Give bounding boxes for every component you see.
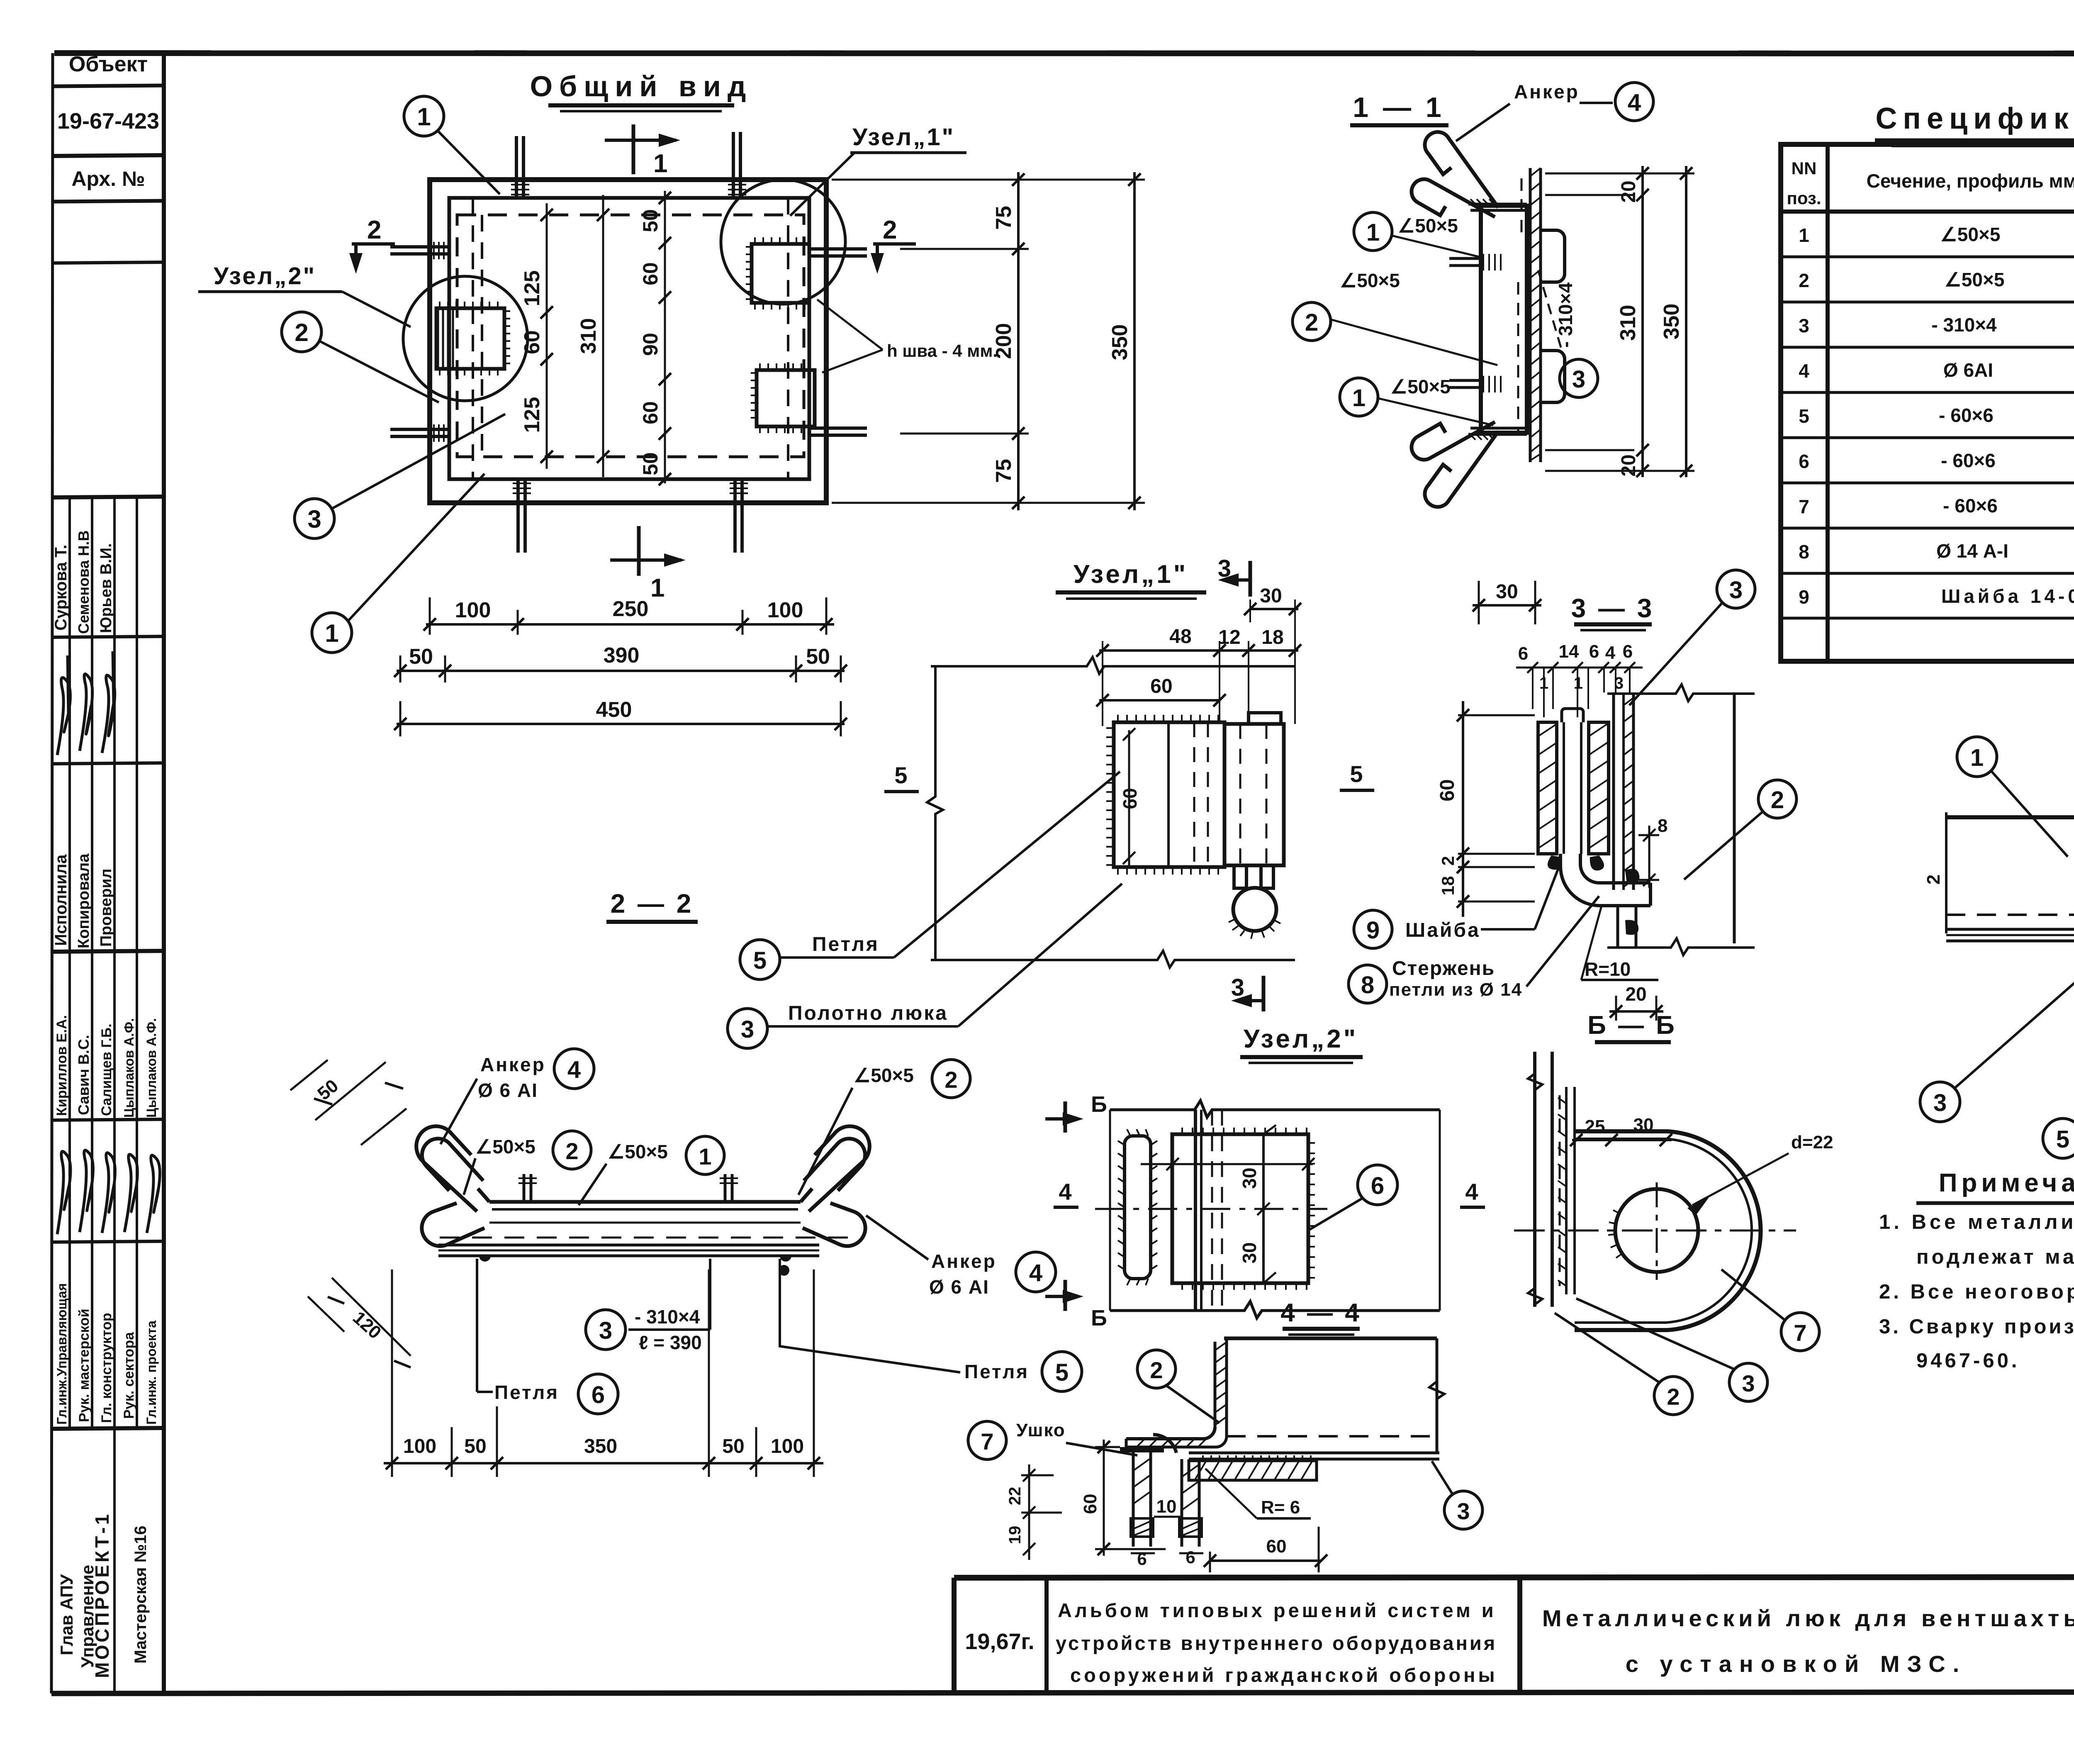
- svg-text:R=10: R=10: [1585, 958, 1631, 980]
- section mark 3 top: [1218, 555, 1251, 597]
- svg-text:3: 3: [307, 505, 321, 533]
- svg-text:75: 75: [992, 459, 1016, 483]
- weld ticks around left plate: [440, 302, 510, 375]
- svg-text:100: 100: [455, 598, 491, 622]
- svg-text:60: 60: [1080, 1494, 1100, 1514]
- svg-text:3: 3: [1729, 577, 1743, 604]
- svg-text:1. Все металлические детали по: 1. Все металлические детали после устано…: [1879, 1211, 2074, 1233]
- section mark 2 left: [349, 216, 395, 274]
- dim 30 left: [1473, 604, 1541, 607]
- svg-text:∠50×5: ∠50×5: [475, 1136, 536, 1157]
- svg-text:30: 30: [1239, 1167, 1260, 1189]
- hole: [1615, 1189, 1698, 1272]
- svg-text:125: 125: [520, 270, 544, 307]
- svg-text:Объект: Объект: [69, 52, 148, 76]
- right boundary: [1607, 685, 1755, 701]
- svg-text:6: 6: [1185, 1547, 1195, 1567]
- svg-text:Шайба 14-0Н: Шайба 14-0Н: [1941, 585, 2074, 607]
- svg-text:подлежат масляной покраске за: подлежат масляной покраске за 2 раза.: [1916, 1246, 2074, 1268]
- right dim 350: [1108, 172, 1141, 510]
- plates (hatched bars): [1538, 722, 1609, 854]
- callout 3 -310x4 l=390: [586, 1310, 626, 1350]
- svg-text:19-67-423: 19-67-423: [57, 109, 159, 134]
- left dims 60/2/18: [1436, 701, 1535, 917]
- bottom dim row 100/250/100: [424, 597, 834, 635]
- svg-text:4: 4: [1799, 360, 1809, 382]
- svg-text:7: 7: [1799, 496, 1809, 517]
- svg-text:100: 100: [767, 598, 803, 622]
- dim 48/12/18: [1099, 649, 1298, 652]
- svg-text:Б: Б: [1091, 1092, 1107, 1117]
- svg-text:5: 5: [753, 947, 767, 974]
- hatched slot (петля hole): [1125, 1136, 1151, 1279]
- hinge lugs on plate: [1541, 230, 1565, 282]
- svg-text:2: 2: [883, 216, 897, 244]
- svg-text:2. Все неоговоренные сварные ш: 2. Все неоговоренные сварные швы hшв.= 5…: [1879, 1281, 2074, 1303]
- callout 1 (bottom) with label: [1340, 378, 1378, 416]
- svg-text:25: 25: [1585, 1116, 1605, 1137]
- anchor hook bottom (pair): [1412, 422, 1498, 507]
- svg-text:5: 5: [2056, 1126, 2069, 1153]
- bent rod (стержень): [1560, 854, 1650, 906]
- svg-text:Рук. сектора: Рук. сектора: [121, 1332, 137, 1419]
- svg-text:2: 2: [944, 1067, 957, 1093]
- wall verticals: [1533, 1052, 1536, 1307]
- detail circle узел 1: [721, 180, 845, 304]
- svg-text:125: 125: [520, 397, 544, 433]
- svg-text:- 60×6: - 60×6: [1941, 450, 1996, 471]
- svg-text:450: 450: [596, 698, 632, 722]
- anchor pins bottom: [518, 479, 742, 553]
- inner dim chain 50/60/90/60/50: [639, 191, 671, 485]
- callout 1 (top) with label: [1354, 212, 1392, 251]
- svg-text:3: 3: [1799, 315, 1809, 336]
- left stamp column: [52, 52, 164, 1693]
- signatures (cursive squiggles): [57, 651, 160, 1234]
- svg-text:- 310×4: - 310×4: [1931, 314, 1997, 336]
- bolt plate: [1224, 724, 1284, 865]
- svg-text:∠50×5: ∠50×5: [608, 1141, 668, 1162]
- svg-text:Петля: Петля: [494, 1381, 559, 1403]
- 60x6 bar hatched: [1189, 1455, 1317, 1480]
- svg-text:∠50×5: ∠50×5: [854, 1065, 914, 1086]
- svg-text:2: 2: [1305, 309, 1318, 336]
- dims left: 60 / 22 / 19: [1006, 1440, 1166, 1560]
- callout 2 with label: [1293, 302, 1331, 341]
- svg-text:Рук. мастерской: Рук. мастерской: [76, 1309, 92, 1423]
- svg-text:Спецификация металла: Спецификация металла: [1875, 102, 2074, 135]
- svg-text:60: 60: [639, 262, 662, 285]
- svg-text:Анкер: Анкер: [480, 1054, 546, 1075]
- svg-text:30: 30: [1260, 585, 1282, 607]
- svg-text:Общий вид: Общий вид: [530, 70, 753, 102]
- svg-text:NN: NN: [1792, 158, 1817, 178]
- dim 8 right of plates: [1648, 826, 1650, 888]
- bottom dim chain 100/50/350/50/100: [384, 1269, 823, 1477]
- svg-text:Суркова Т.: Суркова Т.: [52, 545, 70, 631]
- svg-text:5: 5: [1350, 761, 1363, 787]
- svg-text:30: 30: [1239, 1242, 1260, 1263]
- svg-text:60: 60: [639, 401, 662, 424]
- svg-text:Кириллов Е.А.: Кириллов Е.А.: [54, 1015, 70, 1116]
- title block: [954, 1577, 2074, 1718]
- svg-text:Петля: Петля: [812, 933, 879, 955]
- svg-text:3. Сварку производить электрод: 3. Сварку производить электродами Э-42 п…: [1879, 1316, 2074, 1338]
- svg-text:9: 9: [1366, 917, 1380, 944]
- dashed angle lines: [472, 198, 474, 479]
- svg-text:60: 60: [1266, 1536, 1287, 1557]
- centerline dashed: [1095, 1208, 1327, 1210]
- lid body: [1946, 815, 2074, 819]
- plate strip with hatch: [1565, 1087, 1568, 1294]
- centerlines: [1514, 1230, 1796, 1232]
- svg-text:Узел„1": Узел„1": [852, 124, 955, 151]
- 310x4 plates sandwich lines extending right: [1946, 928, 2074, 931]
- left pins with weld ticks: [1449, 258, 1481, 387]
- svg-text:МОСПРОЕКТ-1: МОСПРОЕКТ-1: [91, 1512, 113, 1678]
- svg-text:3 — 3: 3 — 3: [1571, 593, 1655, 623]
- svg-text:20: 20: [1618, 180, 1640, 202]
- svg-text:75: 75: [992, 206, 1016, 230]
- label h шва-4мм: [817, 300, 998, 373]
- svg-text:- 310×4: - 310×4: [635, 1306, 700, 1328]
- svg-text:390: 390: [604, 643, 640, 668]
- svg-text:∠50×5: ∠50×5: [1390, 376, 1451, 397]
- svg-text:Глав АПУ: Глав АПУ: [57, 1574, 76, 1655]
- svg-text:2: 2: [1150, 1357, 1163, 1383]
- svg-text:Ø 14 А-I: Ø 14 А-I: [1936, 540, 2008, 562]
- weld dots: [479, 1256, 491, 1262]
- notes: [1879, 1169, 2074, 1372]
- body rect: [1224, 1337, 1437, 1340]
- callout 2 left: [282, 312, 439, 402]
- 310x4 plate to right: [1189, 1452, 1439, 1455]
- dims top 25/30: [1572, 1139, 1672, 1141]
- svg-text:- 60×6: - 60×6: [1939, 404, 1994, 426]
- svg-text:1: 1: [325, 619, 338, 647]
- svg-text:Примечания:: Примечания:: [1939, 1169, 2074, 1197]
- svg-text:Анкер: Анкер: [1514, 81, 1580, 102]
- svg-text:30: 30: [1633, 1115, 1654, 1135]
- left boundary with break: [927, 666, 943, 960]
- svg-text:петли из Ø 14: петли из Ø 14: [1389, 979, 1522, 1000]
- svg-text:6: 6: [1137, 1549, 1147, 1569]
- small dims 6/14/6,4,6: [1516, 667, 1643, 669]
- hatch lid inner rect: [449, 198, 809, 479]
- svg-text:350: 350: [584, 1435, 617, 1457]
- svg-text:5: 5: [1055, 1359, 1069, 1386]
- svg-text:250: 250: [613, 597, 649, 621]
- svg-text:50: 50: [806, 645, 830, 669]
- bolts down: [1120, 1435, 1202, 1547]
- svg-text:1: 1: [1970, 744, 1984, 771]
- hatch frame outer rect: [430, 180, 826, 503]
- svg-text:4 — 4: 4 — 4: [1280, 1299, 1361, 1327]
- svg-text:Ø 6АI: Ø 6АI: [1943, 359, 1993, 381]
- svg-text:3: 3: [599, 1317, 612, 1344]
- channel body: [1481, 206, 1527, 433]
- svg-text:1: 1: [653, 149, 667, 178]
- svg-text:7: 7: [1794, 1320, 1806, 1346]
- callout 2: [1654, 1377, 1692, 1415]
- svg-text:∠50×5: ∠50×5: [1945, 269, 2005, 290]
- outer boundary with breaks: [1110, 1101, 1440, 1117]
- svg-text:350: 350: [1660, 304, 1684, 340]
- D lug: [1575, 1131, 1761, 1330]
- svg-text:2: 2: [1771, 787, 1784, 814]
- inner dim 310: [577, 195, 609, 477]
- inner dim chain 125/60/125: [520, 203, 553, 469]
- svg-text:Ø 6 АI: Ø 6 АI: [478, 1079, 538, 1101]
- anchor hook top (pair): [1412, 132, 1498, 217]
- callouts 3 5: [1920, 1082, 1960, 1122]
- svg-text:Гл.инж.Управляющая: Гл.инж.Управляющая: [54, 1283, 69, 1425]
- svg-text:50: 50: [639, 452, 662, 475]
- svg-text:19: 19: [1006, 1526, 1024, 1545]
- svg-text:3: 3: [1933, 1089, 1947, 1116]
- pins up (петли): [524, 1174, 732, 1202]
- svg-text:310: 310: [1616, 305, 1640, 341]
- svg-text:1: 1: [1799, 224, 1809, 246]
- callout 8 Стержень: [1349, 965, 1387, 1003]
- dim 60: [1099, 699, 1220, 702]
- hinge plate right bottom: [757, 370, 815, 426]
- svg-text:6: 6: [1518, 643, 1528, 664]
- svg-text:3: 3: [1231, 974, 1244, 1001]
- svg-text:поз.: поз.: [1787, 188, 1821, 208]
- svg-text:4: 4: [1029, 1260, 1042, 1286]
- callout 7: [1781, 1313, 1819, 1351]
- svg-text:Сечение, профиль мм.: Сечение, профиль мм.: [1867, 170, 2074, 192]
- svg-text:100: 100: [403, 1435, 436, 1457]
- svg-text:2: 2: [295, 319, 308, 346]
- anchor pins top: [516, 132, 740, 198]
- slanted dim 120 bottom-left: [308, 1278, 411, 1367]
- svg-text:2: 2: [1923, 875, 1944, 884]
- svg-text:20: 20: [1618, 454, 1640, 476]
- svg-text:- 60×6: - 60×6: [1943, 495, 1998, 517]
- svg-text:4: 4: [567, 1056, 581, 1083]
- svg-text:3: 3: [741, 1016, 754, 1043]
- callout 3: [1729, 1363, 1767, 1401]
- svg-text:6: 6: [1589, 641, 1599, 662]
- svg-text:устройств внутреннего оборудов: устройств внутреннего оборудования: [1056, 1632, 1497, 1654]
- svg-text:50: 50: [722, 1435, 744, 1457]
- svg-text:3: 3: [1218, 555, 1231, 582]
- callout 4 анкер: [1615, 83, 1653, 121]
- left hooks: [416, 1126, 484, 1246]
- dim 30: [1250, 608, 1298, 610]
- left angle hatched vertical: [1126, 1338, 1227, 1447]
- dashed bolt lines: [1521, 178, 1523, 232]
- svg-text:Цыплаков А.Ф.: Цыплаков А.Ф.: [144, 1018, 159, 1118]
- anchor pins left: [390, 247, 449, 436]
- section mark 1 bottom: [610, 526, 686, 602]
- svg-text:Копировала: Копировала: [75, 853, 93, 948]
- svg-text:Арх. №: Арх. №: [71, 167, 145, 190]
- svg-text:4: 4: [1628, 89, 1641, 116]
- callout 3 with dashed leader: [1560, 359, 1598, 397]
- svg-text:6: 6: [1623, 641, 1633, 662]
- Б marks: [1045, 1092, 1107, 1133]
- svg-text:Стержень: Стержень: [1392, 958, 1495, 979]
- bottom dim row 50/390/50: [394, 643, 847, 682]
- svg-text:2: 2: [1438, 856, 1458, 865]
- svg-text:∠50×5: ∠50×5: [1340, 270, 1400, 291]
- hinge plate left (узел 2 место): [436, 308, 504, 369]
- svg-text:5: 5: [894, 762, 907, 788]
- rod below wall: [1618, 906, 1636, 948]
- right hooks: [803, 1126, 869, 1246]
- svg-text:2 — 2: 2 — 2: [611, 889, 694, 919]
- svg-text:Семенова Н.В: Семенова Н.В: [75, 530, 92, 634]
- svg-text:50: 50: [464, 1435, 486, 1457]
- svg-text:Салищев Г.Б.: Салищев Г.Б.: [99, 1023, 114, 1116]
- svg-text:60: 60: [1150, 675, 1172, 697]
- svg-text:9: 9: [1799, 586, 1809, 608]
- svg-text:Проверил: Проверил: [97, 869, 115, 947]
- svg-text:60: 60: [1436, 779, 1458, 801]
- svg-text:3: 3: [1742, 1370, 1755, 1396]
- svg-text:2: 2: [1667, 1384, 1680, 1410]
- channel bar: [489, 1200, 801, 1204]
- svg-text:Исполнила: Исполнила: [52, 854, 70, 946]
- bottom dim row 450: [394, 698, 847, 736]
- svg-text:6: 6: [592, 1381, 605, 1408]
- wall plate -310x4 (vertical, hatched): [1530, 168, 1565, 462]
- svg-text:d=22: d=22: [1791, 1132, 1833, 1152]
- leader полотно люка: [728, 1009, 767, 1048]
- svg-text:48: 48: [1169, 626, 1191, 648]
- svg-text:20: 20: [1625, 983, 1646, 1005]
- svg-text:Гл. конструктор: Гл. конструктор: [99, 1313, 114, 1423]
- top boundary line with break: [931, 657, 1295, 674]
- bottom boundary with break: [931, 951, 1295, 967]
- svg-text:R= 6: R= 6: [1261, 1497, 1300, 1518]
- svg-text:1: 1: [650, 574, 665, 602]
- 30/30 dim: [1257, 1125, 1276, 1283]
- right dim chain 75/200/75: [832, 172, 1145, 510]
- callout 6: [1358, 1165, 1397, 1205]
- svg-text:18: 18: [1438, 876, 1458, 896]
- svg-text:6: 6: [1371, 1172, 1384, 1199]
- svg-text:14: 14: [1559, 641, 1579, 662]
- svg-text:50: 50: [639, 209, 662, 232]
- callout 3 left: [295, 414, 505, 538]
- svg-text:Полотно люка: Полотно люка: [788, 1002, 948, 1024]
- svg-text:3: 3: [1457, 1498, 1470, 1524]
- svg-text:5: 5: [1799, 405, 1809, 427]
- svg-text:90: 90: [639, 333, 662, 356]
- svg-text:350: 350: [1108, 324, 1132, 361]
- svg-text:Узел„2": Узел„2": [1244, 1025, 1358, 1053]
- svg-text:h шва - 4 мм.: h шва - 4 мм.: [887, 341, 998, 361]
- svg-text:4: 4: [1059, 1179, 1071, 1205]
- svg-text:ℓ = 390: ℓ = 390: [639, 1332, 702, 1353]
- callout 9 Шайба: [1354, 910, 1392, 948]
- svg-text:100: 100: [771, 1435, 804, 1457]
- callout 1 bottom: [312, 474, 484, 653]
- callout 1 top: [404, 96, 500, 194]
- svg-text:сооружений гражданской обороны: сооружений гражданской обороны: [1070, 1664, 1498, 1686]
- svg-text:8: 8: [1799, 541, 1809, 563]
- section mark 3 bottom: [1231, 974, 1264, 1011]
- svg-text:Цыплаков А.Ф.: Цыплаков А.Ф.: [122, 1018, 136, 1118]
- svg-text:Шайба: Шайба: [1405, 919, 1480, 941]
- svg-text:Гл.инж. проекта: Гл.инж. проекта: [144, 1321, 159, 1425]
- weld blobs: [1548, 855, 1561, 870]
- svg-text:Петля: Петля: [964, 1361, 1029, 1382]
- svg-text:∠50×5: ∠50×5: [1398, 215, 1458, 236]
- svg-text:Б — Б: Б — Б: [1587, 1011, 1677, 1040]
- dim extension verticals: [1103, 599, 1295, 726]
- ушко plate: [1172, 1134, 1308, 1283]
- horizontal mini dim line across plate: [1141, 1163, 1313, 1165]
- end flanges up: [478, 1189, 812, 1202]
- svg-text:1: 1: [1366, 219, 1380, 246]
- svg-text:Металлический люк для вентшахт: Металлический люк для вентшахты: [1542, 1605, 2074, 1631]
- detail circle узел 2: [403, 276, 528, 401]
- svg-text:Юрьев В.И.: Юрьев В.И.: [97, 543, 115, 633]
- break mark right: [1429, 1381, 1444, 1399]
- wall plate vertical: [1614, 695, 1633, 890]
- svg-text:4: 4: [1605, 643, 1616, 663]
- svg-text:1: 1: [1352, 385, 1366, 412]
- svg-text:2: 2: [1799, 270, 1809, 291]
- label узел 1: [790, 124, 966, 216]
- svg-text:22: 22: [1006, 1487, 1024, 1506]
- svg-text:9467-60.: 9467-60.: [1916, 1350, 2020, 1372]
- svg-text:50: 50: [409, 645, 433, 669]
- specification table: [1781, 102, 2074, 661]
- callouts: [1137, 1350, 1176, 1388]
- svg-text:2: 2: [367, 216, 381, 244]
- svg-text:1 — 1: 1 — 1: [1353, 92, 1444, 123]
- hinge plate right top (узел 1 место): [752, 244, 809, 303]
- svg-text:Б: Б: [1091, 1306, 1107, 1330]
- svg-text:10: 10: [1156, 1496, 1177, 1517]
- svg-text:19,67г.: 19,67г.: [965, 1629, 1034, 1654]
- svg-text:60: 60: [520, 330, 544, 354]
- callout 3: [1717, 570, 1755, 608]
- svg-text:6: 6: [1799, 451, 1809, 472]
- svg-text:∠50×5: ∠50×5: [1940, 224, 2001, 245]
- wall lines: [1194, 1110, 1197, 1311]
- top/bottom angle flanges with weld hatch: [1468, 204, 1527, 434]
- bolt lower part + loop: [1234, 865, 1273, 888]
- svg-text:Ушко: Ушко: [1016, 1420, 1066, 1440]
- dims right: 20/310/350/20: [1545, 166, 1694, 477]
- svg-text:12: 12: [1218, 626, 1240, 648]
- svg-text:3: 3: [1572, 366, 1585, 393]
- anchor pins right: [809, 249, 867, 435]
- section mark 1 top: [605, 124, 680, 178]
- callouts 1 2: [1957, 737, 1997, 777]
- svg-text:30: 30: [1496, 581, 1518, 603]
- bolt between plates: [1562, 709, 1583, 722]
- svg-text:1: 1: [699, 1143, 711, 1170]
- svg-text:2: 2: [565, 1138, 578, 1164]
- svg-text:Узел„1": Узел„1": [1074, 560, 1188, 589]
- hatched plate (петля plate): [1114, 722, 1224, 867]
- slanted dim 50 top-left: [290, 1060, 407, 1145]
- svg-text:- 310×4: - 310×4: [1555, 282, 1576, 348]
- label узел 2: [198, 263, 411, 327]
- svg-text:Ø 6 АI: Ø 6 АI: [929, 1276, 989, 1298]
- svg-text:4: 4: [1465, 1179, 1478, 1205]
- svg-text:1: 1: [417, 103, 431, 131]
- svg-text:Мастерская №16: Мастерская №16: [131, 1525, 150, 1664]
